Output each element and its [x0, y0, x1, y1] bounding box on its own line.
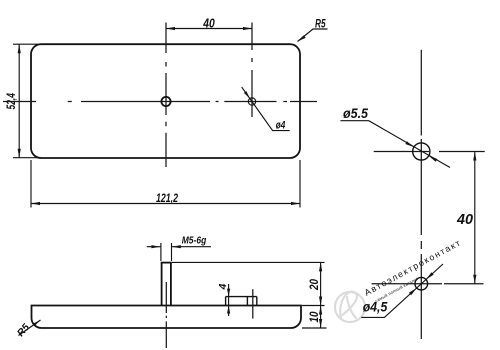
leader ø4,5 [361, 264, 443, 317]
vertical centerline [420, 50, 422, 339]
svg-text:R5: R5 [315, 19, 326, 31]
stud axis centerline [165, 282, 167, 348]
upper hole horizontal centerline [374, 151, 485, 153]
extension line from stud top to the right [172, 261, 325, 263]
dimension 52,4 (left) [13, 44, 41, 158]
watermark logo circle [335, 292, 365, 322]
dimension 121,2 (bottom of plan) [31, 160, 300, 208]
M5-6g dimension [147, 243, 211, 261]
svg-text:4: 4 [217, 284, 229, 291]
vertical centerline through center hole [165, 23, 167, 168]
leader ø5.5 [340, 121, 450, 168]
hole axis in side view [252, 289, 254, 318]
svg-text:ø5.5: ø5.5 [343, 105, 368, 121]
small hole circle ø4 [248, 98, 255, 105]
svg-text:ø4: ø4 [276, 119, 286, 131]
contact plateau (4 mm boss) [226, 297, 257, 306]
vertical centerline through small hole [251, 23, 253, 118]
leader R5 (bottom-left corner of side view) [19, 320, 41, 336]
dimension 20 / 10 (right of side view) [319, 262, 322, 328]
plate outline rounded rect [31, 44, 300, 158]
svg-text:121,2: 121,2 [156, 191, 178, 205]
horizontal centerline of plan view [3, 101, 317, 103]
svg-text:40: 40 [202, 16, 214, 30]
watermark text [363, 237, 463, 303]
leader R5 (top-right corner) [298, 29, 328, 42]
svg-text:52,4: 52,4 [6, 93, 18, 110]
lower hole horizontal centerline [372, 283, 484, 285]
center hole circle [161, 97, 170, 106]
plate edge extension lines to the right [302, 305, 325, 307]
svg-text:20: 20 [309, 278, 321, 290]
upper hole circle ø5.5 [413, 143, 430, 160]
svg-text:40: 40 [456, 211, 474, 228]
M5 stud [161, 263, 172, 306]
leader ø4 [242, 87, 290, 131]
svg-text:M5-6g: M5-6g [182, 235, 207, 246]
svg-text:10: 10 [309, 311, 321, 323]
dimension 40 (top) [166, 27, 252, 30]
lower hole circle ø4.5 [415, 277, 428, 290]
dimension 4 (boss height) [227, 284, 230, 316]
plate profile [32, 306, 302, 329]
dimension 40 (right view) [473, 152, 476, 284]
svg-text:ø4,5: ø4,5 [363, 299, 388, 315]
